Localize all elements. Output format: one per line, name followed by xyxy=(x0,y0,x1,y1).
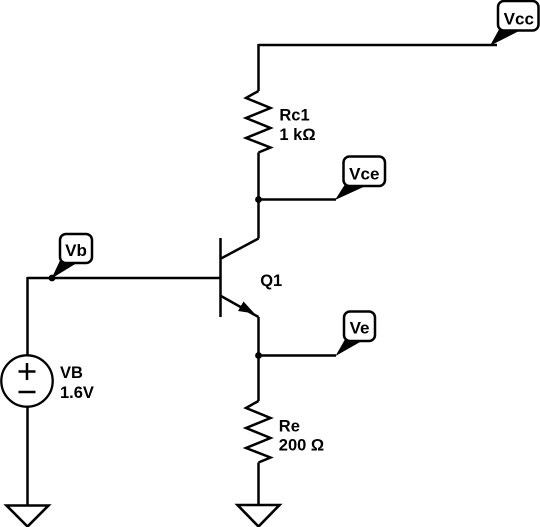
voltage flag Vce xyxy=(335,157,385,201)
svg-text:Re: Re xyxy=(279,417,300,435)
wire: base xyxy=(28,277,221,280)
svg-text:1 kΩ: 1 kΩ xyxy=(279,126,315,144)
wire: emitter vertical (Q1 to emitter node) xyxy=(257,317,260,356)
ground (right) xyxy=(238,505,280,527)
wire: Rc1 bottom to collector node xyxy=(257,153,260,200)
wire: Vcc rail horizontal xyxy=(259,44,498,47)
svg-text:1.6V: 1.6V xyxy=(60,384,94,402)
svg-text:Q1: Q1 xyxy=(260,272,282,290)
node: base / Vb junction xyxy=(49,275,56,282)
svg-text:200 Ω: 200 Ω xyxy=(279,437,324,455)
svg-text:Ve: Ve xyxy=(350,319,370,338)
voltage source VB xyxy=(1,355,52,406)
wire: Re bottom to right ground xyxy=(257,463,260,506)
svg-text:Vce: Vce xyxy=(349,165,379,184)
node: collector / Vce junction xyxy=(255,196,262,203)
svg-text:Rc1: Rc1 xyxy=(279,107,309,125)
wire: Vcc rail down to Rc1 top xyxy=(257,44,260,91)
voltage flag Ve xyxy=(336,312,376,357)
resistor Rc1 xyxy=(246,91,271,153)
voltage flag Vb xyxy=(52,234,93,279)
transistor Q1 xyxy=(221,238,259,317)
wire: collector vertical (node to Q1) xyxy=(257,200,260,239)
power flag Vcc xyxy=(490,1,539,46)
svg-text:Vcc: Vcc xyxy=(504,10,534,29)
resistor Re xyxy=(246,401,271,463)
wire: left vertical (base corner to VB source) xyxy=(26,277,29,356)
wire: Vce tap xyxy=(259,198,337,201)
ground (left) xyxy=(7,506,49,527)
wire: emitter node to Re top xyxy=(257,356,260,402)
wire: VB source to left ground xyxy=(26,407,29,506)
wire: Ve tap xyxy=(259,354,337,357)
svg-text:Vb: Vb xyxy=(65,241,87,260)
node: emitter / Ve junction xyxy=(255,352,262,359)
svg-text:VB: VB xyxy=(60,364,83,382)
